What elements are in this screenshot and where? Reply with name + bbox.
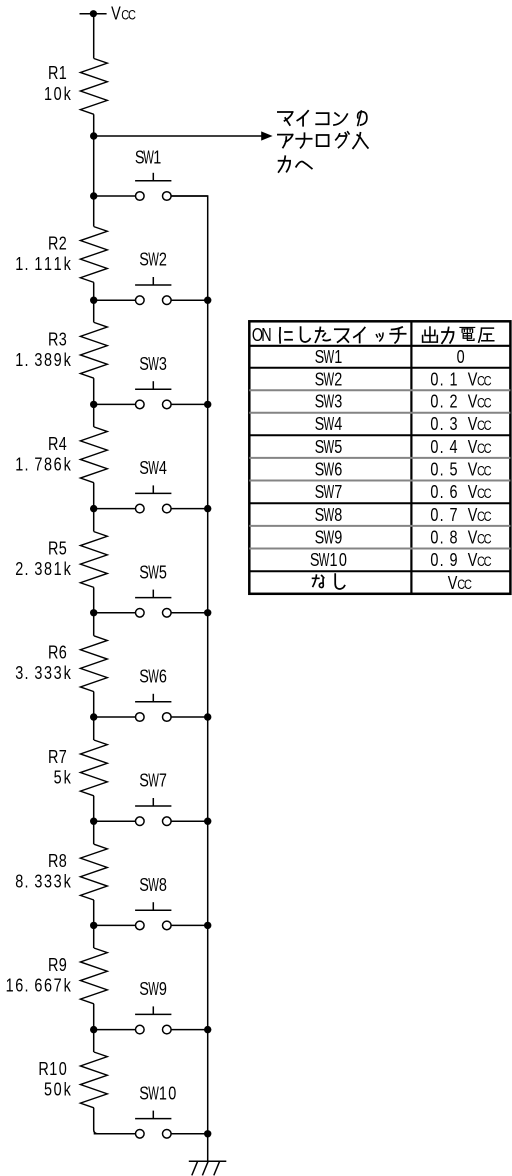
R7 labels — [48, 746, 71, 788]
svg-text:S: S — [315, 527, 325, 548]
wire R6 top lead — [93, 613, 95, 636]
svg-text:C: C — [484, 441, 492, 456]
svg-text:5: 5 — [449, 459, 457, 480]
svg-text:.: . — [24, 975, 28, 996]
svg-text:1: 1 — [34, 253, 42, 274]
node dot SW9 left rail — [90, 1026, 97, 1033]
switch SW8 — [135, 902, 171, 930]
node dot SW9 right rail — [204, 1026, 211, 1033]
R9 labels — [6, 954, 72, 996]
wire SW7 right lead — [171, 820, 208, 822]
table: output voltage table frame — [249, 321, 510, 594]
node dot SW5 left rail — [90, 609, 97, 616]
wire SW10 right lead — [171, 1133, 208, 1135]
svg-text:W: W — [323, 460, 334, 481]
node dot SW5 right rail — [204, 609, 211, 616]
node dot SW7 left rail — [90, 818, 97, 825]
node dot SW4 left rail — [90, 505, 97, 512]
R8 labels — [15, 850, 71, 892]
svg-text:S: S — [139, 353, 149, 374]
wire SW1 left lead — [94, 195, 136, 197]
table row SW7 — [315, 481, 492, 503]
svg-text:1: 1 — [49, 1058, 57, 1079]
svg-text:S: S — [139, 1083, 149, 1104]
svg-text:W: W — [323, 528, 334, 549]
table row SW3 — [315, 391, 492, 413]
svg-text:2: 2 — [59, 233, 67, 254]
svg-text:6: 6 — [334, 459, 342, 480]
svg-text:3: 3 — [44, 871, 52, 892]
svg-text:.: . — [440, 369, 444, 390]
svg-text:0: 0 — [168, 1083, 176, 1104]
wire SW7 left lead — [94, 820, 136, 822]
svg-text:k: k — [64, 1079, 72, 1100]
wire R10 bottom lead with elbow to SW10 — [94, 1108, 136, 1134]
svg-text:3: 3 — [15, 662, 23, 683]
svg-text:.: . — [24, 871, 28, 892]
svg-text:8: 8 — [44, 558, 52, 579]
wire SW4 right lead — [171, 508, 208, 510]
wire SW10 left lead — [94, 1133, 136, 1135]
SW9 label — [139, 978, 167, 1000]
svg-text:S: S — [139, 457, 149, 478]
Vcc node dot — [90, 10, 97, 17]
svg-text:3: 3 — [34, 871, 42, 892]
wire R6 bottom lead — [93, 692, 95, 717]
svg-text:k: k — [64, 253, 72, 274]
resistor R6 — [80, 636, 107, 692]
svg-text:W: W — [323, 437, 334, 458]
wire R2 top lead — [93, 196, 95, 227]
svg-text:k: k — [64, 975, 72, 996]
switch SW7 — [135, 798, 171, 826]
svg-text:2: 2 — [334, 369, 342, 390]
svg-text:9: 9 — [59, 954, 67, 975]
SW4 label — [139, 457, 167, 479]
svg-text:0: 0 — [54, 1079, 62, 1100]
svg-text:.: . — [440, 413, 444, 434]
svg-text:5: 5 — [159, 562, 167, 583]
wire SW8 left lead — [94, 924, 136, 926]
svg-text:S: S — [315, 369, 325, 390]
SW5 label — [139, 562, 167, 584]
svg-text:4: 4 — [449, 436, 457, 457]
node dot SW8 right rail — [204, 922, 211, 929]
svg-text:1: 1 — [44, 253, 52, 274]
node dot SW3 right rail — [204, 401, 211, 408]
table row SW10 — [310, 549, 492, 571]
svg-text:0: 0 — [430, 459, 438, 480]
R2 labels — [15, 233, 71, 275]
svg-text:0: 0 — [430, 481, 438, 502]
svg-text:.: . — [24, 558, 28, 579]
svg-text:9: 9 — [449, 549, 457, 570]
SW8 label — [139, 874, 167, 896]
svg-text:3: 3 — [54, 662, 62, 683]
table row nashi / Vcc — [313, 572, 472, 593]
svg-text:0: 0 — [430, 391, 438, 412]
svg-text:R: R — [48, 642, 58, 663]
svg-text:R: R — [48, 954, 58, 975]
wire SW6 left lead — [94, 716, 136, 718]
R1 labels R1 10k — [44, 62, 71, 104]
svg-text:1: 1 — [44, 83, 52, 104]
Vcc label — [111, 3, 136, 24]
svg-text:1: 1 — [6, 975, 14, 996]
svg-text:.: . — [24, 349, 28, 370]
wire R3 bottom lead — [93, 378, 95, 404]
resistor R3 — [80, 322, 107, 378]
wire SW9 right lead — [171, 1029, 208, 1031]
switch SW2 — [135, 277, 171, 305]
svg-text:C: C — [484, 486, 492, 501]
svg-text:k: k — [64, 767, 72, 788]
svg-text:8: 8 — [15, 871, 23, 892]
wire SW9 left lead — [94, 1029, 136, 1031]
wire SW6 right lead — [171, 716, 208, 718]
node dot SW2 right rail — [204, 297, 211, 304]
table row SW2 — [315, 369, 492, 391]
svg-text:6: 6 — [44, 975, 52, 996]
wire R5 top lead — [93, 509, 95, 532]
label: maikon no analog nyuuryoku e (3 lines) — [278, 111, 368, 172]
svg-text:W: W — [148, 563, 159, 584]
svg-text:.: . — [440, 436, 444, 457]
svg-text:3: 3 — [34, 558, 42, 579]
wire SW3 right lead — [171, 403, 208, 405]
svg-text:S: S — [315, 346, 325, 367]
svg-text:V: V — [468, 527, 478, 548]
svg-text:.: . — [24, 662, 28, 683]
R4 labels — [15, 433, 71, 475]
arrow wire to microcontroller analog input — [94, 131, 273, 140]
svg-text:3: 3 — [59, 329, 67, 350]
svg-text:C: C — [484, 418, 492, 433]
svg-text:3: 3 — [44, 662, 52, 683]
svg-text:2: 2 — [159, 249, 167, 270]
svg-text:9: 9 — [54, 349, 62, 370]
svg-text:S: S — [315, 481, 325, 502]
wire SW2 right lead — [171, 299, 208, 301]
svg-text:W: W — [148, 458, 159, 479]
node dot SW3 left rail — [90, 401, 97, 408]
svg-text:1: 1 — [54, 253, 62, 274]
wire SW5 right lead — [171, 612, 208, 614]
node dot SW6 left rail — [90, 713, 97, 720]
svg-text:8: 8 — [159, 874, 167, 895]
wire SW8 right lead — [171, 924, 208, 926]
svg-text:W: W — [148, 875, 159, 896]
svg-text:R: R — [48, 850, 58, 871]
svg-text:6: 6 — [159, 666, 167, 687]
svg-text:W: W — [323, 482, 334, 503]
svg-text:R: R — [48, 538, 58, 559]
resistor R10 — [80, 1052, 107, 1108]
svg-text:7: 7 — [449, 504, 457, 525]
svg-text:V: V — [468, 549, 478, 570]
node dot SW1 left rail — [90, 192, 97, 199]
svg-text:W: W — [323, 414, 334, 435]
wire Vcc to R1 — [93, 14, 95, 59]
table header: ON ni shita switch / shutsuryoku denatsu — [252, 324, 494, 345]
svg-text:V: V — [111, 3, 121, 24]
svg-text:S: S — [315, 459, 325, 480]
svg-text:W: W — [148, 771, 159, 792]
svg-text:W: W — [148, 250, 159, 271]
svg-text:5: 5 — [334, 436, 342, 457]
svg-text:1: 1 — [54, 558, 62, 579]
svg-text:0: 0 — [430, 527, 438, 548]
switch SW1 — [135, 173, 171, 201]
node dot SW2 left rail — [90, 297, 97, 304]
wire right rail from SW1 elbow down to ground — [171, 196, 208, 1161]
SW2 label — [139, 249, 167, 271]
svg-text:k: k — [64, 662, 72, 683]
svg-text:.: . — [440, 459, 444, 480]
svg-text:W: W — [148, 354, 159, 375]
svg-text:N: N — [261, 324, 271, 345]
svg-text:k: k — [64, 871, 72, 892]
svg-text:W: W — [323, 347, 334, 368]
svg-text:V: V — [468, 481, 478, 502]
svg-text:1: 1 — [449, 369, 457, 390]
svg-text:W: W — [319, 550, 330, 571]
svg-text:5: 5 — [54, 767, 62, 788]
svg-text:8: 8 — [334, 504, 342, 525]
wire R5 bottom lead — [93, 587, 95, 612]
svg-text:C: C — [484, 396, 492, 411]
svg-text:8: 8 — [59, 850, 67, 871]
svg-text:1: 1 — [15, 349, 23, 370]
svg-text:0: 0 — [430, 413, 438, 434]
wire R8 bottom lead — [93, 900, 95, 925]
svg-text:3: 3 — [449, 413, 457, 434]
resistor R7 — [80, 740, 107, 796]
svg-text:0: 0 — [59, 1058, 67, 1079]
svg-text:3: 3 — [334, 391, 342, 412]
svg-text:.: . — [440, 391, 444, 412]
svg-text:.: . — [24, 454, 28, 475]
svg-text:1: 1 — [15, 454, 23, 475]
R5 labels — [15, 538, 71, 580]
svg-text:6: 6 — [449, 481, 457, 502]
svg-text:k: k — [64, 349, 72, 370]
svg-text:1: 1 — [334, 346, 342, 367]
svg-text:5: 5 — [44, 1079, 52, 1100]
switch SW6 — [135, 694, 171, 722]
svg-text:W: W — [148, 979, 159, 1000]
R6 labels — [15, 642, 71, 684]
resistor R1 — [80, 59, 107, 115]
svg-text:C: C — [484, 509, 492, 524]
svg-text:k: k — [64, 454, 72, 475]
svg-text:1: 1 — [329, 549, 337, 570]
svg-text:R: R — [38, 1058, 48, 1079]
svg-text:V: V — [468, 459, 478, 480]
table row SW9 — [315, 527, 492, 549]
svg-text:1: 1 — [59, 62, 67, 83]
switch SW10 — [135, 1111, 171, 1139]
table row SW1 — [315, 346, 465, 368]
svg-text:V: V — [468, 413, 478, 434]
svg-text:7: 7 — [159, 770, 167, 791]
wire R2 bottom lead — [93, 282, 95, 300]
node dot SW6 right rail — [204, 713, 211, 720]
resistor R8 — [80, 844, 107, 900]
switch SW4 — [135, 485, 171, 513]
svg-text:V: V — [468, 504, 478, 525]
svg-text:R: R — [48, 329, 58, 350]
svg-text:3: 3 — [54, 871, 62, 892]
svg-text:S: S — [139, 562, 149, 583]
wire R9 top lead — [93, 925, 95, 948]
svg-text:5: 5 — [59, 538, 67, 559]
svg-text:C: C — [484, 531, 492, 546]
wire R7 top lead — [93, 717, 95, 740]
switch SW3 — [135, 381, 171, 409]
svg-text:8: 8 — [449, 527, 457, 548]
svg-text:3: 3 — [34, 662, 42, 683]
wire R4 bottom lead — [93, 483, 95, 509]
node dot SW8 left rail — [90, 922, 97, 929]
svg-text:V: V — [448, 572, 458, 593]
SW7 label — [139, 770, 167, 792]
svg-text:6: 6 — [34, 975, 42, 996]
wire R9 bottom lead — [93, 1004, 95, 1030]
svg-text:C: C — [484, 554, 492, 569]
switch SW9 — [135, 1006, 171, 1033]
svg-text:k: k — [64, 83, 72, 104]
svg-text:6: 6 — [15, 975, 23, 996]
svg-text:S: S — [310, 549, 320, 570]
svg-text:W: W — [323, 392, 334, 413]
SW3 label — [139, 353, 167, 375]
wire SW5 left lead — [94, 612, 136, 614]
svg-text:.: . — [440, 527, 444, 548]
node dot SW10 right rail — [204, 1130, 211, 1137]
svg-text:7: 7 — [59, 746, 67, 767]
svg-text:W: W — [323, 370, 334, 391]
wire SW4 left lead — [94, 508, 136, 510]
svg-text:S: S — [139, 249, 149, 270]
svg-text:3: 3 — [159, 353, 167, 374]
svg-text:9: 9 — [159, 978, 167, 999]
svg-text:8: 8 — [44, 349, 52, 370]
svg-text:0: 0 — [430, 436, 438, 457]
svg-text:6: 6 — [54, 454, 62, 475]
svg-text:.: . — [440, 549, 444, 570]
table row SW4 — [315, 413, 492, 435]
svg-text:0: 0 — [430, 549, 438, 570]
wire R7 bottom lead — [93, 796, 95, 821]
ground — [189, 1161, 227, 1175]
Vcc terminal bar — [80, 13, 107, 15]
svg-text:7: 7 — [34, 454, 42, 475]
resistor R5 — [80, 532, 107, 588]
wire R8 top lead — [93, 821, 95, 844]
svg-text:S: S — [315, 413, 325, 434]
svg-text:2: 2 — [15, 558, 23, 579]
svg-text:0: 0 — [339, 549, 347, 570]
svg-text:7: 7 — [54, 975, 62, 996]
resistor R4 — [80, 427, 107, 483]
svg-text:V: V — [468, 436, 478, 457]
svg-text:2: 2 — [449, 391, 457, 412]
resistor R2 — [80, 227, 107, 283]
svg-text:0: 0 — [54, 83, 62, 104]
table row SW8 — [315, 504, 492, 526]
svg-text:R: R — [48, 746, 58, 767]
svg-text:V: V — [468, 369, 478, 390]
svg-text:C: C — [464, 577, 472, 592]
node dot SW7 right rail — [204, 818, 211, 825]
svg-text:6: 6 — [59, 642, 67, 663]
SW1 label — [135, 147, 161, 169]
svg-text:0: 0 — [457, 346, 465, 367]
svg-text:S: S — [315, 436, 325, 457]
svg-text:W: W — [148, 667, 159, 688]
wire R10 top lead — [93, 1030, 95, 1052]
svg-text:1: 1 — [15, 253, 23, 274]
svg-text:7: 7 — [334, 481, 342, 502]
svg-text:W: W — [148, 1084, 159, 1105]
svg-text:W: W — [323, 505, 334, 526]
wire SW3 left lead — [94, 403, 136, 405]
svg-text:.: . — [440, 481, 444, 502]
svg-text:S: S — [139, 666, 149, 687]
svg-text:C: C — [484, 373, 492, 388]
svg-text:S: S — [139, 978, 149, 999]
wire SW2 left lead — [94, 299, 136, 301]
switch SW5 — [135, 590, 171, 618]
table row SW6 — [315, 459, 492, 481]
wire R1 to output node — [93, 114, 95, 136]
wire R4 top lead — [93, 404, 95, 427]
svg-text:.: . — [440, 504, 444, 525]
svg-text:0: 0 — [430, 369, 438, 390]
svg-text:0: 0 — [430, 504, 438, 525]
svg-text:S: S — [315, 504, 325, 525]
svg-text:9: 9 — [334, 527, 342, 548]
node dot SW4 right rail — [204, 505, 211, 512]
svg-text:S: S — [139, 770, 149, 791]
svg-text:1: 1 — [153, 147, 161, 168]
SW10 label — [139, 1083, 176, 1105]
svg-text:S: S — [139, 874, 149, 895]
svg-text:4: 4 — [159, 457, 167, 478]
table row SW5 — [315, 436, 492, 458]
resistor R9 — [80, 948, 107, 1004]
svg-text:8: 8 — [44, 454, 52, 475]
SW6 label — [139, 666, 167, 688]
svg-text:.: . — [24, 253, 28, 274]
svg-text:k: k — [64, 558, 72, 579]
svg-text:C: C — [128, 7, 136, 22]
R10 labels — [38, 1058, 71, 1100]
svg-text:R: R — [48, 62, 58, 83]
svg-text:S: S — [315, 391, 325, 412]
svg-text:R: R — [48, 233, 58, 254]
wire R3 top lead — [93, 300, 95, 322]
wire output node to SW1 row — [93, 136, 95, 196]
svg-text:V: V — [468, 391, 478, 412]
svg-text:R: R — [48, 433, 58, 454]
svg-text:4: 4 — [334, 413, 342, 434]
svg-text:C: C — [484, 463, 492, 478]
output node A dot — [90, 132, 97, 139]
svg-text:1: 1 — [159, 1083, 167, 1104]
R3 labels — [15, 329, 71, 371]
